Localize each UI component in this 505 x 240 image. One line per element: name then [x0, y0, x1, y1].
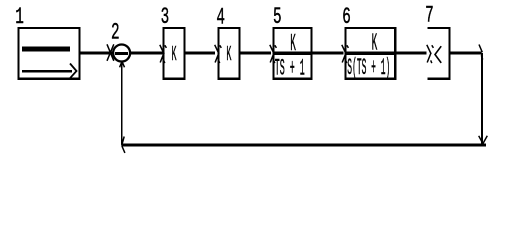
feedback right vertical wire — [481, 53, 483, 144]
arrowhead into block 3 — [160, 45, 167, 63]
svg-text:3: 3 — [161, 4, 170, 30]
minus sign in summing junction — [115, 52, 128, 55]
output wire from block 7 — [450, 52, 481, 55]
svg-text:2: 2 — [111, 20, 120, 46]
wire summing junction to block 3 — [131, 52, 162, 55]
svg-text:TS + 1: TS + 1 — [275, 55, 305, 81]
block 5 first order lag K/(TS+1) — [274, 28, 312, 79]
wire block1 to summing junction — [80, 52, 112, 55]
svg-text:K: K — [172, 44, 177, 67]
block 1 thick bar — [22, 47, 70, 52]
arrowhead into block 7 — [427, 45, 434, 63]
arrowhead into block 5 — [270, 45, 277, 63]
left arrowhead at bottom left corner — [122, 137, 125, 153]
block 4 gain K — [218, 28, 239, 79]
block 7 scope bracket — [428, 28, 450, 79]
down arrowhead at bottom right corner — [479, 136, 488, 144]
block 1 arrow line — [22, 70, 72, 73]
block 3 gain K — [164, 28, 185, 79]
arrowhead into block 4 — [215, 45, 222, 63]
feedback left vertical wire — [121, 62, 123, 145]
arrowhead at output corner — [479, 45, 483, 60]
wire block 4 to block 5 — [240, 52, 271, 55]
up arrowhead into summing junction — [120, 61, 125, 67]
block 5 fraction bar — [275, 52, 311, 55]
svg-text:K: K — [226, 44, 231, 67]
arrowhead into block 6 — [342, 45, 349, 63]
block 6 integrator lag K/S(TS+1) — [346, 28, 396, 79]
wire block 6 to block 7 — [396, 52, 426, 55]
svg-text:5: 5 — [273, 4, 282, 30]
summing junction 2 — [113, 45, 130, 62]
feedback bottom horizontal wire — [122, 144, 487, 147]
svg-text:7: 7 — [425, 2, 434, 28]
block 6 fraction bar — [347, 52, 394, 55]
block 1 source box — [19, 28, 80, 79]
svg-text:S(TS + 1): S(TS + 1) — [347, 55, 390, 81]
block 1 arrowhead — [70, 64, 77, 79]
wire block 5 to block 6 — [311, 52, 343, 55]
svg-text:6: 6 — [342, 4, 351, 30]
wire block 3 to block 4 — [186, 52, 216, 55]
svg-text:4: 4 — [216, 5, 225, 31]
arrowhead into summing junction — [107, 44, 114, 61]
block 7 angle glyph — [435, 46, 441, 63]
svg-text:1: 1 — [15, 4, 24, 30]
